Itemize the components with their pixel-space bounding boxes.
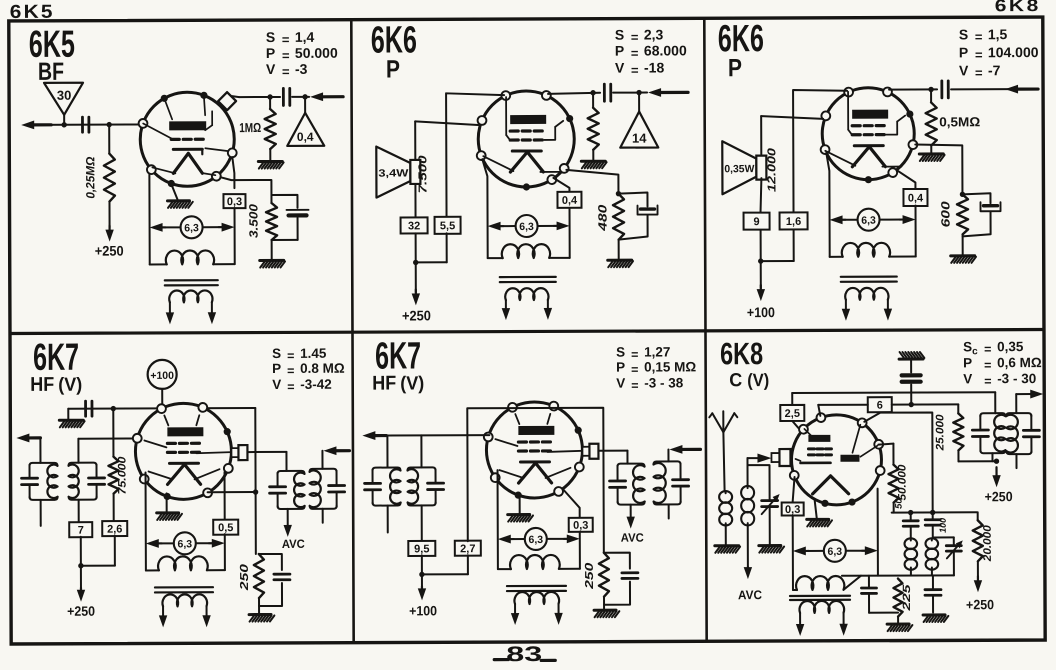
arrow output right b: [669, 445, 700, 454]
svg-text:AVC: AVC: [621, 531, 644, 545]
svg-text:S: S: [963, 339, 972, 354]
output transformer primary a: [488, 244, 570, 258]
wire 0,3 to heater b: [579, 532, 581, 569]
heater 6,3 d: [498, 528, 580, 550]
svg-text:-7: -7: [988, 62, 1001, 78]
wire to +100 c: [418, 555, 427, 600]
wire screen column a: [415, 121, 480, 160]
svg-text:6K8: 6K8: [995, 0, 1041, 15]
header label 6K8 (top-right): [995, 0, 1041, 15]
resistor 1MΩ: [239, 97, 276, 149]
svg-text:25.000: 25.000: [934, 413, 946, 451]
label +250 d: [985, 489, 1013, 504]
svg-text:600: 600: [938, 201, 952, 227]
wire heater left e: [792, 516, 794, 590]
wire heater left d: [497, 470, 499, 569]
svg-text:+100: +100: [150, 370, 174, 382]
resistor 600: [938, 194, 968, 234]
wire heater right e: [877, 489, 879, 576]
transformer core: [165, 280, 218, 285]
grid cap diamond: [218, 92, 239, 110]
arrow input left b: [362, 431, 387, 440]
wire grid top to cap b: [889, 87, 937, 93]
transformer core b: [841, 277, 897, 282]
capacitor input: [82, 117, 88, 132]
wire osc bottom bus: [842, 570, 954, 575]
ground under 600: [951, 234, 976, 263]
wire antenna stem: [723, 432, 724, 491]
page number 83: [494, 643, 555, 666]
svg-text:75.000: 75.000: [116, 456, 128, 495]
heater 6,3 indicator: [150, 216, 235, 238]
svg-text:V: V: [963, 371, 972, 386]
svg-text:P: P: [272, 361, 281, 376]
wire heater left b: [826, 153, 829, 257]
svg-text:=: =: [975, 29, 983, 44]
wire grid a: [78, 438, 137, 440]
antenna: [709, 411, 737, 432]
wire IF out top b: [667, 449, 669, 461]
data V=-3-38: [616, 375, 684, 392]
wire IF1 bottoms: [992, 453, 1016, 468]
wire grid-cap to capacitor: [239, 94, 280, 100]
svg-text:+250: +250: [67, 604, 95, 619]
transformer secondary e: [799, 601, 844, 625]
resistor 0,25MΩ: [83, 125, 115, 202]
IF transformer output a: [270, 469, 345, 509]
label +100 c: [409, 603, 437, 618]
svg-text:S: S: [266, 29, 275, 45]
wire grid top to cap: [548, 90, 600, 96]
wire 7 to +250: [77, 537, 86, 602]
ground cathode a: [157, 513, 182, 520]
wire cathode gnd a: [166, 493, 168, 511]
wire plate to 3.500: [220, 177, 271, 203]
column divider 1: [351, 21, 353, 642]
capacitor 50: [894, 498, 919, 538]
svg-text:+250: +250: [95, 243, 124, 259]
label box 1,6: [780, 212, 808, 229]
wire speaker to box 9: [760, 178, 761, 212]
svg-text:P: P: [728, 54, 742, 82]
heater 6,3 c: [146, 532, 225, 554]
transformer secondary: [169, 290, 212, 314]
svg-text:S: S: [272, 346, 281, 361]
wire screen to drop a: [208, 491, 256, 493]
svg-text:0,3: 0,3: [573, 520, 588, 532]
label box 0,3 b: [569, 518, 593, 532]
tube V5 6K7: [484, 402, 584, 499]
svg-text:S: S: [959, 26, 968, 42]
supply circle +100: [148, 360, 177, 407]
svg-text:6,3: 6,3: [861, 215, 876, 227]
tube top cap a: [231, 445, 247, 460]
svg-text:14: 14: [632, 131, 647, 146]
svg-text:=: =: [631, 30, 639, 45]
wire AVC stub a: [283, 509, 292, 537]
svg-text:250: 250: [239, 563, 251, 591]
svg-text:BF: BF: [38, 58, 64, 86]
speaker 3,4W: [376, 146, 420, 197]
wire IF1 top stub: [994, 392, 996, 413]
wire top bus Y1: [792, 391, 995, 394]
svg-text:2,6: 2,6: [107, 524, 122, 536]
svg-text:0,3: 0,3: [227, 196, 242, 208]
arrow output right a: [323, 446, 349, 455]
panel title 6K7 a: [33, 337, 79, 379]
capacitor grid b: [942, 81, 948, 98]
wire 0,4 to transformer a: [569, 208, 571, 258]
filament transformer c: [793, 576, 861, 590]
wire cathode to 0,4 b: [897, 171, 915, 189]
variable capacitor osc: [933, 537, 963, 575]
wire mid bus: [892, 510, 977, 516]
wire Y2 left: [818, 405, 868, 416]
arrow to +250: [105, 202, 114, 242]
arrow input from right: [310, 92, 343, 101]
wire 75.000 to 2,6: [113, 494, 115, 522]
wire IF out bottom stub a: [322, 509, 324, 523]
wire osc coil AVC: [744, 525, 753, 579]
resistor 0,5MΩ: [926, 89, 981, 145]
transformer core d: [507, 586, 566, 591]
label box 2,5: [780, 393, 804, 428]
svg-text:6,3: 6,3: [184, 222, 199, 234]
resistor 50.000: [878, 444, 908, 503]
label +250 a: [402, 307, 431, 323]
arrow secondary e left: [796, 624, 804, 636]
data Sc=0,35: [963, 339, 1024, 357]
wire IF out bottom stub b: [668, 504, 670, 518]
wire plate to speaker column: [446, 93, 504, 217]
svg-text:=: =: [984, 342, 991, 356]
svg-text:1,5: 1,5: [988, 26, 1008, 42]
ground cathode c: [807, 519, 832, 526]
svg-text:0,4: 0,4: [908, 192, 924, 204]
row divider: [11, 330, 1043, 334]
svg-text:=: =: [984, 374, 991, 388]
wire 0,3 to transformer: [234, 208, 236, 264]
column divider 2: [704, 19, 706, 640]
bypass capacitor d: [604, 553, 638, 605]
data P=0,6MOhm: [963, 355, 1042, 372]
svg-text:0.8 MΩ: 0.8 MΩ: [300, 361, 345, 376]
svg-text:+100: +100: [409, 603, 437, 618]
svg-text:6K8: 6K8: [720, 336, 763, 371]
wire heater left: [148, 173, 150, 264]
wire plate to speaker column b: [793, 90, 847, 212]
transformer core e: [790, 596, 850, 600]
wire cathode to ground: [171, 184, 177, 199]
tube V4 6K7: [133, 403, 233, 500]
wire cathode gnd c: [815, 500, 817, 518]
svg-text:1,6: 1,6: [786, 216, 801, 228]
output transformer primary b: [830, 243, 916, 257]
wire screen column b: [761, 116, 823, 154]
svg-text:=: =: [282, 32, 290, 47]
svg-text:6: 6: [877, 400, 883, 412]
filament transformer a: [146, 556, 225, 570]
svg-text:=: =: [282, 64, 290, 79]
IF transformer output b: [609, 461, 688, 504]
resistor 3.500: [246, 203, 277, 240]
svg-text:3,4W: 3,4W: [378, 167, 408, 179]
capacitor top-left a: [86, 401, 92, 416]
bypass capacitor loop: [271, 195, 308, 240]
svg-text:-3 - 30: -3 - 30: [997, 371, 1036, 386]
panel title 6K8: [720, 336, 763, 371]
svg-text:6K7: 6K7: [375, 335, 421, 377]
IF transformer 1 right: [1006, 413, 1039, 454]
label box 9,5: [408, 541, 435, 556]
svg-text:83: 83: [506, 643, 542, 666]
wire speaker to box 32: [414, 184, 416, 217]
label box 2,6: [102, 521, 127, 536]
svg-text:=: =: [631, 63, 639, 78]
svg-text:(V): (V): [400, 373, 424, 394]
label box 0,5: [213, 520, 238, 535]
svg-text:6K7: 6K7: [33, 337, 79, 379]
wire grid b: [387, 434, 489, 436]
svg-text:V: V: [959, 62, 969, 78]
svg-text:2,7: 2,7: [460, 543, 475, 555]
wire screen to 0,3 box: [232, 157, 234, 188]
panel subtitle HF(V) b: [372, 372, 424, 394]
svg-text:V: V: [272, 377, 281, 392]
arrow secondary left: [166, 312, 174, 324]
svg-text:=: =: [631, 46, 639, 61]
wire top bus right drop a: [253, 408, 259, 554]
arrow secondary b right: [884, 309, 892, 321]
svg-text:104.000: 104.000: [988, 44, 1039, 60]
svg-text:0,4: 0,4: [562, 195, 578, 207]
transformer core a: [500, 277, 556, 282]
label +250 c: [67, 604, 95, 619]
svg-text:P: P: [959, 44, 968, 60]
arrow secondary c right: [202, 615, 210, 627]
ground top-left a: [59, 409, 84, 428]
svg-text:2,5: 2,5: [785, 408, 800, 420]
svg-text:0,5MΩ: 0,5MΩ: [939, 114, 980, 129]
panel title 6K7 b: [375, 335, 421, 377]
arrow secondary e right: [839, 624, 847, 636]
svg-text:1.45: 1.45: [300, 346, 327, 361]
svg-text:20.000: 20.000: [982, 524, 994, 562]
transformer secondary c: [162, 594, 207, 617]
svg-text:S: S: [615, 27, 624, 43]
label AVC c: [738, 588, 762, 602]
wire cap to edge b: [951, 88, 1011, 90]
wire to box 0,3 b: [564, 490, 580, 518]
svg-text:c: c: [972, 346, 978, 357]
arrow secondary a left: [502, 308, 510, 320]
svg-text:-3: -3: [295, 61, 308, 77]
svg-text:-3-42: -3-42: [300, 377, 332, 392]
bypass capacitor b: [962, 193, 1000, 236]
ground grid-leak a: [581, 150, 606, 169]
ground under 250 b: [594, 597, 619, 618]
arrow secondary b left: [842, 309, 850, 321]
label AVC a: [282, 537, 305, 551]
label box 32: [401, 217, 428, 233]
svg-text:0,35: 0,35: [997, 339, 1024, 354]
label box 5,5: [435, 217, 461, 234]
svg-text:100: 100: [938, 518, 948, 533]
svg-text:6,3: 6,3: [828, 546, 843, 558]
capacitor 100: [925, 512, 948, 537]
IF transformer input a: [21, 438, 104, 526]
svg-text:+250: +250: [966, 597, 994, 612]
svg-text:=: =: [975, 47, 983, 62]
tube top cap b: [582, 444, 598, 459]
panel subtitle BF: [38, 58, 64, 86]
wire top bus a: [68, 405, 255, 411]
svg-text:480: 480: [595, 204, 609, 232]
svg-text:AVC: AVC: [282, 537, 305, 551]
svg-text:9: 9: [753, 216, 759, 228]
wire top cap to IF b: [598, 451, 627, 464]
svg-text:225: 225: [901, 584, 913, 612]
data S=2,3: [615, 26, 664, 44]
capacitor osc gnd: [925, 575, 941, 612]
wire input line: [34, 122, 145, 128]
panel subtitle P a: [386, 55, 400, 83]
wire cap to edge a: [613, 90, 647, 96]
data V=-18: [615, 59, 665, 77]
IF transformer input b: [364, 435, 443, 541]
label box 0,4 b: [903, 189, 927, 206]
label 12.000: [766, 147, 778, 192]
svg-text:+250: +250: [402, 307, 431, 323]
svg-text:7.500: 7.500: [417, 155, 429, 194]
svg-text:1MΩ: 1MΩ: [239, 120, 261, 135]
svg-text:3.500: 3.500: [246, 204, 260, 238]
panel subtitle HF(V) a: [30, 374, 82, 396]
svg-text:6,3: 6,3: [528, 534, 543, 546]
resistor 480: [595, 194, 624, 240]
svg-text:(V): (V): [58, 375, 82, 396]
data P=0.8MOhm: [272, 361, 345, 378]
wire heater left c: [145, 472, 147, 570]
svg-text:1,27: 1,27: [644, 344, 670, 359]
svg-text:=: =: [631, 379, 638, 393]
svg-text:=: =: [975, 65, 983, 80]
resistor 250 a: [239, 554, 264, 598]
svg-text:30: 30: [57, 88, 72, 103]
svg-text:50.000: 50.000: [295, 45, 338, 61]
wire to +100 b: [756, 230, 765, 301]
arrow input left a: [16, 433, 40, 442]
arrow +250 low: [974, 576, 982, 592]
wire 0,4 to transformer b: [915, 206, 917, 257]
capacitor grid a: [604, 84, 610, 101]
wire 2,7 join: [421, 435, 468, 574]
wire box 0,3 c: [793, 477, 795, 502]
panel title 6K6 b: [718, 18, 764, 60]
wire coil to grid cap: [747, 458, 759, 486]
data V=-3-42: [272, 377, 332, 394]
data V=-3: [266, 61, 308, 79]
wire top rect b: [467, 408, 604, 554]
resistor 250 b: [584, 553, 609, 597]
heater 6,3 e: [793, 540, 878, 562]
wire heater left a: [482, 159, 487, 258]
heater 6,3 b: [830, 209, 916, 231]
capacitor 225 parallel: [861, 576, 898, 613]
wire 25.000 bottom: [958, 450, 999, 464]
svg-text:250: 250: [584, 562, 596, 590]
triangle 0,4: [287, 97, 324, 146]
wire 50.000 bottom: [893, 503, 895, 513]
svg-text:7: 7: [78, 525, 84, 537]
wire screen grid right b: [915, 144, 965, 197]
svg-text:+250: +250: [985, 489, 1013, 504]
svg-text:9,5: 9,5: [414, 543, 429, 555]
wire cathode gnd b: [519, 497, 521, 513]
arrow secondary a right: [544, 308, 552, 320]
ground under 0,5MΩ b: [919, 145, 944, 161]
arrow secondary d left: [511, 613, 519, 625]
arrow input b: [1005, 85, 1038, 94]
panel title 6K6 a: [371, 19, 417, 61]
panel subtitle C(V): [729, 370, 769, 391]
bypass capacitor a: [618, 193, 657, 240]
svg-text:-3 - 38: -3 - 38: [644, 375, 684, 390]
transformer secondary a: [505, 288, 548, 310]
svg-text:=: =: [287, 380, 294, 394]
label box 2,7: [455, 541, 481, 556]
wire screen grid right a: [566, 170, 621, 197]
svg-text:C: C: [729, 370, 742, 391]
wire 2,6 join: [81, 536, 115, 566]
data S=1,5: [959, 26, 1008, 44]
svg-text:+100: +100: [747, 304, 775, 320]
wire heater right c: [224, 534, 226, 570]
svg-text:P: P: [386, 55, 400, 83]
data V=-7: [959, 62, 1001, 80]
coil IF osc 1: [904, 538, 917, 569]
IF transformer 1 left: [972, 413, 1005, 453]
label AVC b: [621, 531, 644, 545]
data S=1,27: [616, 344, 670, 361]
svg-text:=: =: [631, 348, 638, 362]
wire IF1 out: [1016, 394, 1033, 413]
svg-text:-18: -18: [644, 59, 665, 75]
arrow secondary d right: [554, 613, 562, 625]
variable capacitor antenna: [748, 465, 780, 514]
svg-text:=: =: [287, 364, 294, 378]
svg-text:0,25MΩ: 0,25MΩ: [83, 156, 97, 199]
svg-text:P: P: [266, 45, 275, 61]
ground antenna coil: [715, 525, 740, 553]
data P=0,15MOhm: [616, 359, 696, 376]
svg-text:0,6 MΩ: 0,6 MΩ: [997, 355, 1042, 370]
decoupling capacitor top: [902, 360, 921, 407]
svg-text:V: V: [615, 60, 625, 76]
wire cathode to 0,4: [553, 178, 569, 192]
wire to +250 a: [411, 233, 420, 305]
svg-text:0,3: 0,3: [785, 504, 800, 516]
ground cathode: [167, 201, 192, 208]
resistor 75.000: [108, 409, 128, 495]
ground under 225: [887, 617, 912, 632]
speaker 0,35W: [722, 141, 766, 194]
arrow output left: [21, 120, 51, 129]
capacitor grid input: [283, 88, 289, 105]
resistor grid-leak a: [588, 93, 599, 150]
data S=1,4: [266, 29, 315, 47]
wire osc plate drop: [864, 412, 932, 512]
